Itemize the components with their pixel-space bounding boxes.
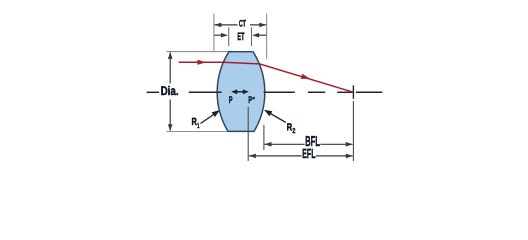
svg-text:″: ″: [252, 95, 255, 105]
svg-text:ET: ET: [237, 31, 245, 43]
svg-text:2: 2: [292, 126, 295, 135]
svg-text:P: P: [229, 95, 233, 106]
svg-text:1: 1: [197, 121, 199, 130]
svg-text:EFL: EFL: [302, 146, 316, 161]
svg-text:CT: CT: [239, 18, 246, 29]
svg-text:Dia.: Dia.: [161, 84, 179, 98]
